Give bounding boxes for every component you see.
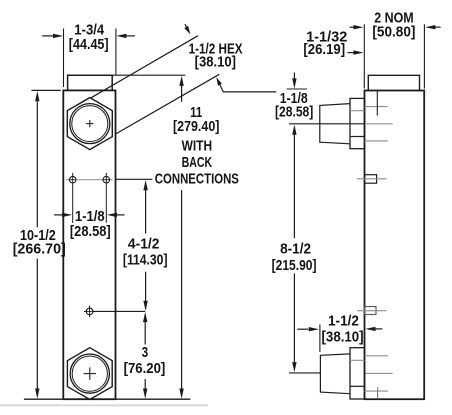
svg-text:3: 3 xyxy=(142,344,149,361)
svg-text:4-1/2: 4-1/2 xyxy=(128,236,160,253)
svg-text:BACK: BACK xyxy=(182,154,213,171)
svg-text:[266.70]: [266.70] xyxy=(13,241,66,258)
svg-text:CONNECTIONS: CONNECTIONS xyxy=(155,171,239,188)
svg-text:8-1/2: 8-1/2 xyxy=(280,241,311,258)
svg-text:[28.58]: [28.58] xyxy=(70,223,111,240)
svg-text:[28.58]: [28.58] xyxy=(275,104,313,121)
svg-text:[50.80]: [50.80] xyxy=(372,23,415,40)
svg-text:[215.90]: [215.90] xyxy=(272,257,317,274)
svg-text:1-1/2: 1-1/2 xyxy=(328,312,359,329)
svg-text:[38.10]: [38.10] xyxy=(322,328,364,345)
svg-text:WITH: WITH xyxy=(182,138,213,155)
svg-text:[44.45]: [44.45] xyxy=(69,36,109,53)
svg-text:[76.20]: [76.20] xyxy=(124,360,166,377)
svg-text:[26.19]: [26.19] xyxy=(303,41,345,58)
svg-text:[38.10]: [38.10] xyxy=(195,54,236,71)
svg-text:[114.30]: [114.30] xyxy=(123,251,168,268)
svg-text:[279.40]: [279.40] xyxy=(173,118,219,135)
